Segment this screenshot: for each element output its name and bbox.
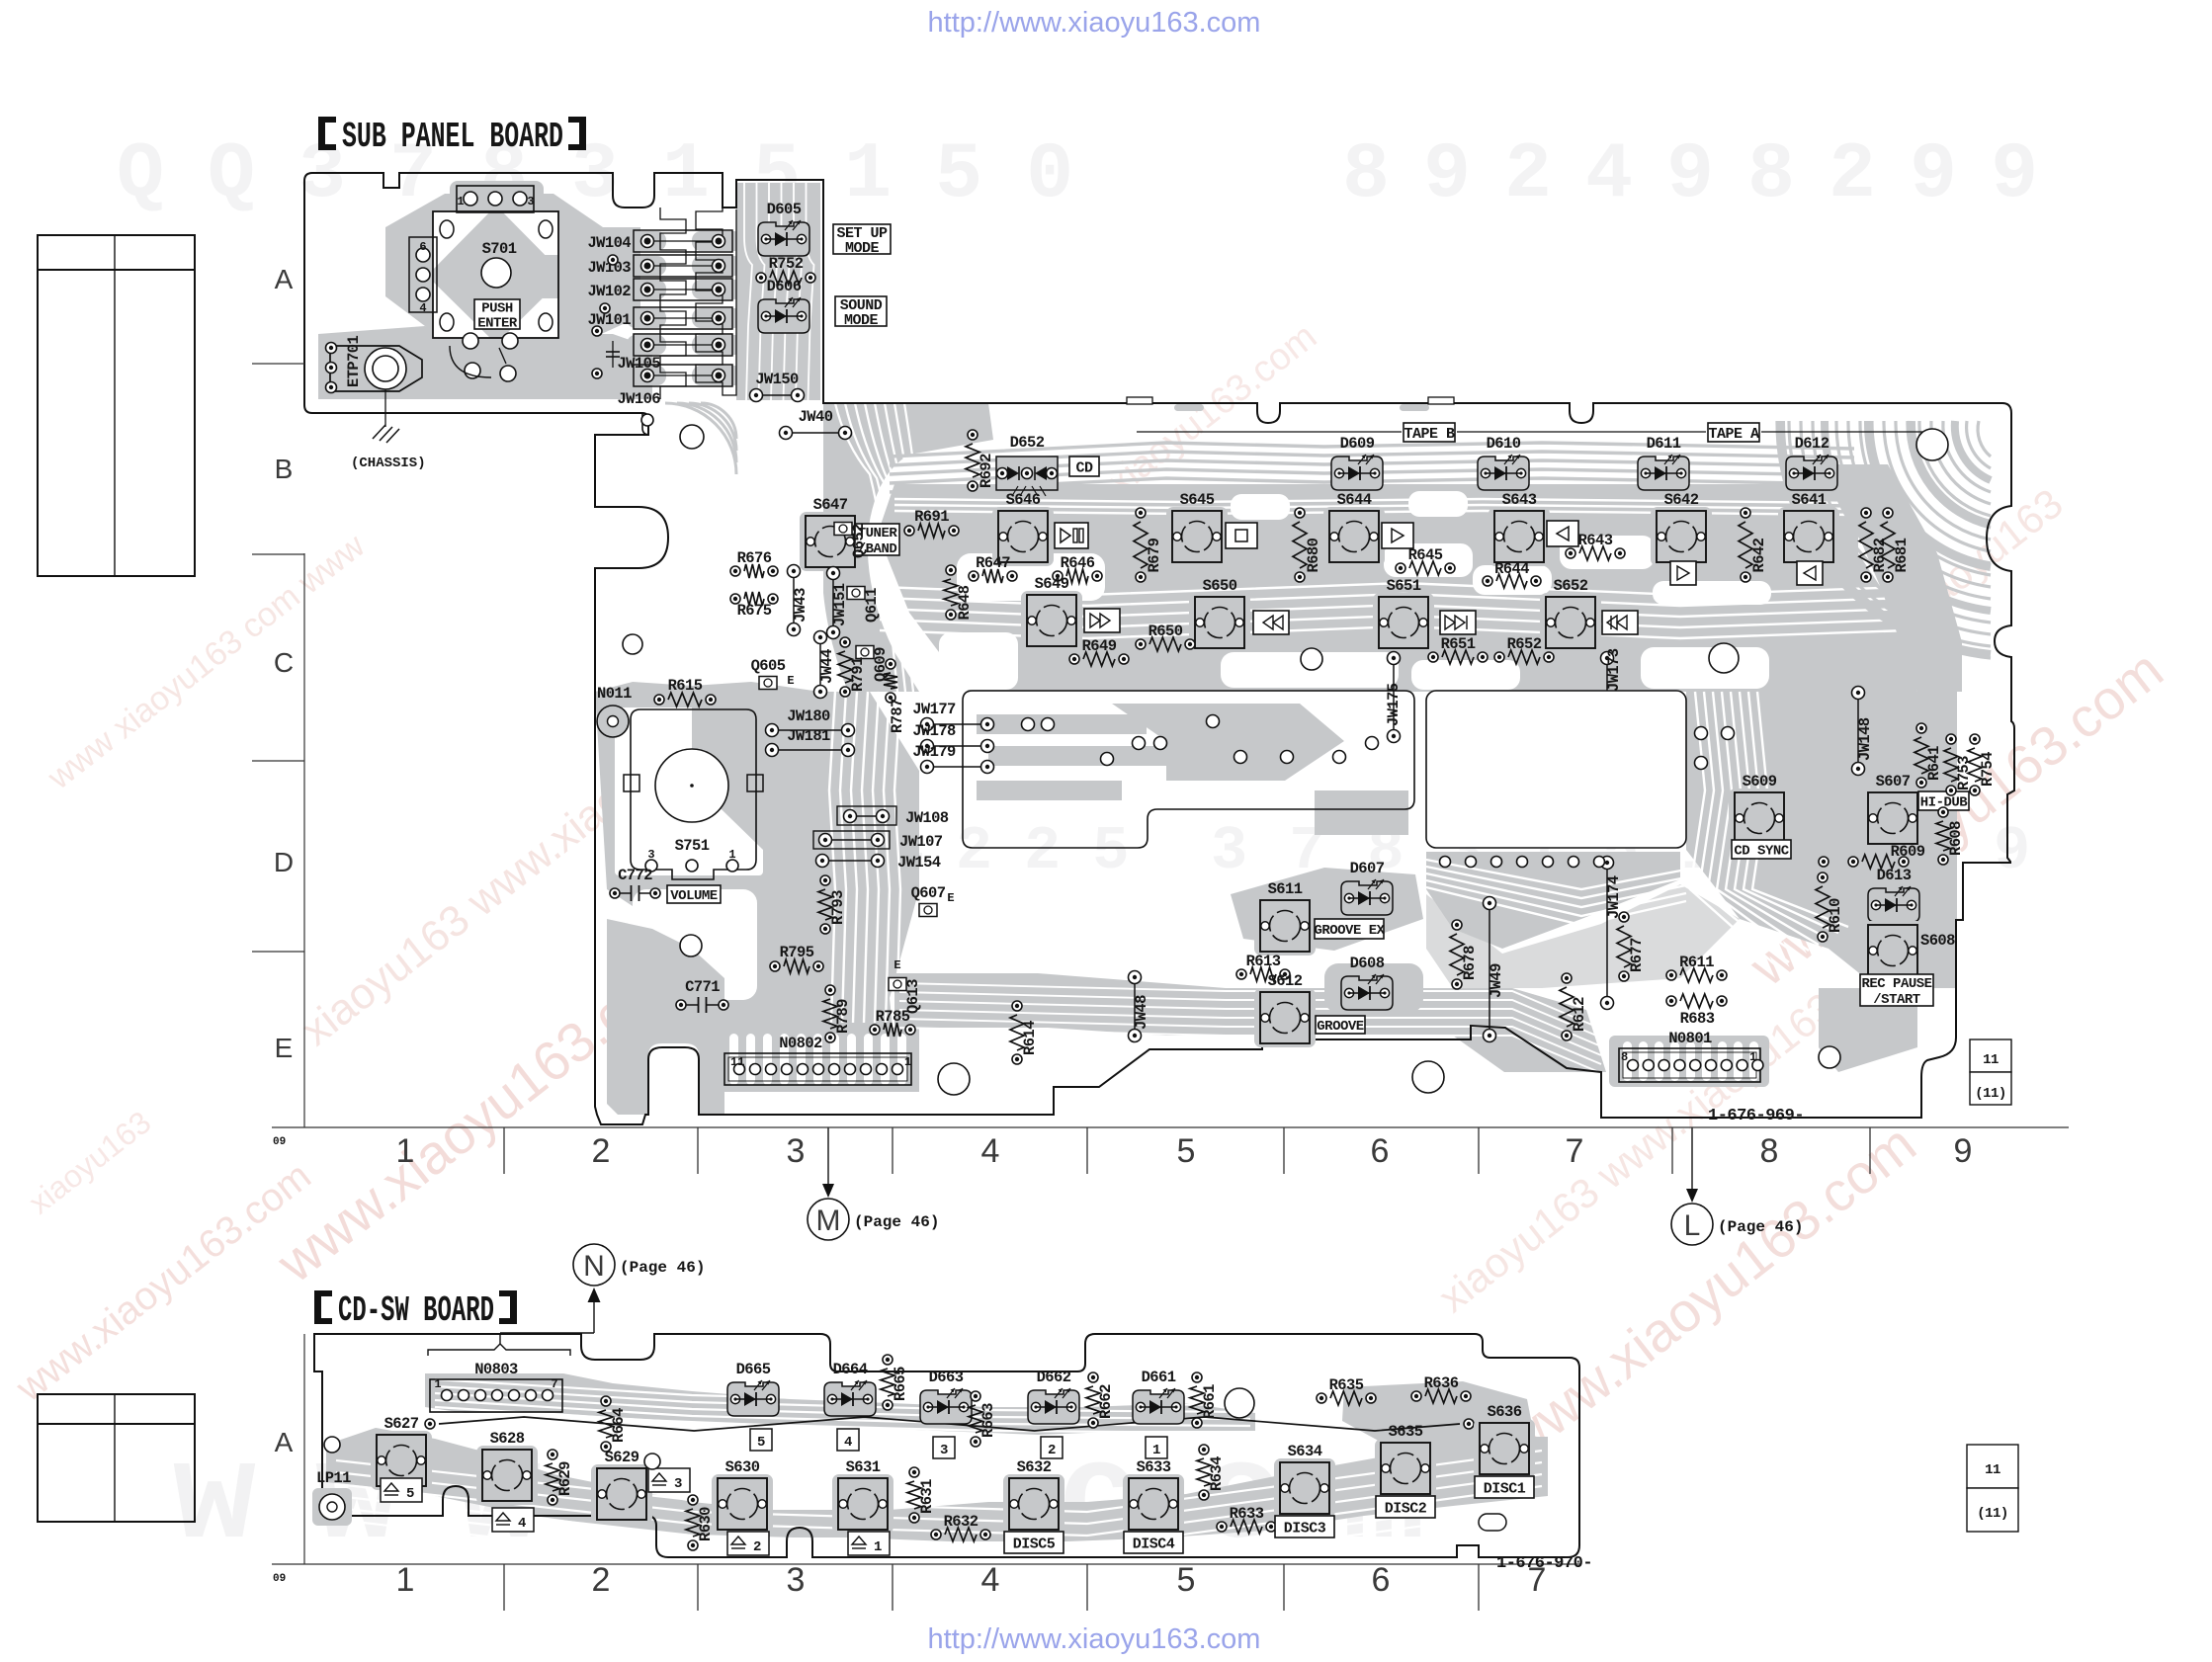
lamp LP11: [312, 1469, 352, 1526]
switch S632: [1003, 1458, 1064, 1534]
ETP701 test point: [326, 335, 423, 392]
LED D609: [1331, 435, 1383, 490]
svg-text:GROOVE: GROOVE: [1317, 1019, 1364, 1035]
svg-text:D605: D605: [767, 201, 802, 218]
svg-text:D611: D611: [1647, 435, 1681, 453]
svg-text:R613: R613: [1246, 953, 1281, 970]
resistor R632: [931, 1513, 990, 1541]
svg-text:R676: R676: [737, 549, 772, 567]
resistor R643: [1566, 532, 1625, 560]
white keepout rect B: [1426, 691, 1686, 848]
svg-text:1: 1: [1749, 1050, 1756, 1064]
svg-text:http://www.xiaoyu163.com: http://www.xiaoyu163.com: [928, 1623, 1261, 1655]
hole below S751: [680, 935, 702, 956]
svg-text:S635: S635: [1389, 1423, 1423, 1441]
copper: S611/S612 cluster: [1231, 868, 1423, 951]
svg-text:11: 11: [1983, 1052, 1999, 1068]
svg-text:2: 2: [592, 1561, 611, 1599]
switch S633: [1123, 1458, 1184, 1534]
resistor R641: [1914, 723, 1943, 788]
svg-text:2: 2: [1048, 1443, 1056, 1458]
resistor R754: [1968, 734, 1997, 795]
copper: right mid region below rect B: [1426, 852, 1680, 949]
switch S608: [1862, 921, 1923, 980]
label SET UP MODE: [833, 224, 891, 254]
svg-text:DISC2: DISC2: [1385, 1500, 1427, 1517]
svg-text:D: D: [274, 847, 294, 877]
resistor R610: [1816, 873, 1844, 942]
svg-text:6: 6: [1372, 1561, 1391, 1599]
switch S641: [1778, 491, 1839, 566]
switch S643: [1489, 491, 1550, 566]
oval hole cd-sw right: [1479, 1514, 1506, 1531]
resistor R663: [969, 1391, 997, 1447]
resistor R652: [1494, 635, 1554, 664]
page index cd-sw board: [1967, 1445, 2018, 1488]
svg-text:JW154: JW154: [897, 854, 941, 872]
svg-text:R641: R641: [1925, 746, 1943, 781]
label TUNER/BAND: [855, 524, 899, 555]
resistor R636: [1411, 1374, 1471, 1403]
hole bottom mid: [938, 1063, 970, 1095]
label DISC3: [1275, 1516, 1334, 1537]
svg-text:3: 3: [527, 195, 534, 208]
resistor R629: [546, 1450, 574, 1505]
svg-text:DISC5: DISC5: [1013, 1536, 1056, 1552]
svg-text:R609: R609: [1891, 843, 1925, 861]
svg-text:JW178: JW178: [912, 722, 956, 740]
copper: middle horizontal groove band: [894, 973, 1606, 1072]
svg-text:S608: S608: [1920, 932, 1955, 950]
svg-text:4: 4: [419, 301, 426, 315]
title SUB PANEL BOARD: [318, 117, 586, 157]
resistor R630: [686, 1495, 715, 1550]
svg-text:D608: D608: [1350, 955, 1385, 972]
wire jumper JW44: [814, 631, 837, 699]
svg-text:S631: S631: [846, 1458, 881, 1476]
switch S629: [591, 1449, 652, 1524]
svg-text:R644: R644: [1494, 560, 1529, 578]
svg-text:R643: R643: [1578, 532, 1613, 549]
flow arrow L: [1671, 1127, 1803, 1245]
resistor R614: [1010, 1001, 1039, 1064]
svg-text:JW173: JW173: [1605, 648, 1623, 692]
svg-text:A: A: [275, 264, 294, 294]
svg-text:JW104: JW104: [587, 234, 631, 252]
switch S652: [1540, 577, 1601, 652]
svg-text:R795: R795: [780, 944, 814, 961]
transistor Q613: [889, 978, 922, 1015]
svg-text:S611: S611: [1268, 880, 1303, 898]
symbol play fwd below S642: [1670, 561, 1696, 585]
wire jumper JW148: [1852, 687, 1875, 776]
copper: cd-sw upper traces from N0803: [425, 1373, 1255, 1435]
svg-text:JW108: JW108: [905, 809, 949, 827]
switch S607: [1862, 773, 1923, 848]
capacitor C772: [610, 867, 660, 901]
transistor Q605: [751, 657, 795, 690]
resistor R787: [884, 659, 906, 733]
switch S627: [371, 1415, 432, 1490]
svg-text:D610: D610: [1487, 435, 1521, 453]
switch S634: [1274, 1443, 1335, 1518]
revision tables left: [38, 235, 195, 576]
svg-text:E: E: [787, 674, 794, 688]
resistor R692: [966, 430, 995, 491]
svg-text:N0803: N0803: [474, 1361, 518, 1378]
svg-text:R663: R663: [979, 1403, 997, 1438]
svg-text:JW44: JW44: [818, 649, 836, 684]
sub panel bottom edge continuation: [642, 413, 649, 435]
svg-text:1: 1: [457, 195, 464, 208]
svg-text:R648: R648: [956, 585, 974, 620]
svg-text:CD-SW BOARD: CD-SW BOARD: [338, 1290, 494, 1331]
svg-text:3: 3: [674, 1476, 682, 1492]
resistor R752: [756, 255, 815, 285]
svg-text:R633: R633: [1230, 1505, 1264, 1523]
svg-text:S634: S634: [1288, 1443, 1322, 1460]
svg-text:E: E: [275, 1033, 294, 1063]
svg-text:CD SYNC: CD SYNC: [1734, 844, 1789, 860]
svg-text:R634: R634: [1208, 1456, 1226, 1491]
svg-text:R680: R680: [1305, 538, 1322, 572]
grid ruler cd-sw board: [272, 1563, 1581, 1565]
svg-text:1: 1: [396, 1132, 415, 1170]
svg-text:3: 3: [647, 848, 654, 862]
svg-text:R791: R791: [849, 657, 867, 692]
svg-text:R645: R645: [1408, 546, 1443, 564]
resistor R609: [1848, 843, 1925, 869]
switch S628: [476, 1430, 538, 1505]
svg-text:A: A: [275, 1427, 294, 1457]
svg-text:1: 1: [728, 848, 735, 862]
switch S649: [1021, 575, 1082, 650]
svg-text:R681: R681: [1893, 538, 1911, 572]
svg-text:5: 5: [1177, 1132, 1196, 1170]
svg-text:C772: C772: [618, 867, 652, 884]
resistor R644: [1483, 560, 1541, 588]
svg-text:S646: S646: [1006, 491, 1041, 509]
wire jumper JW150: [750, 371, 805, 402]
svg-text:TAPE B: TAPE B: [1404, 426, 1455, 443]
svg-text:JW180: JW180: [787, 707, 830, 725]
switch S701 body: [433, 211, 558, 338]
copper: thin traces above switch rows: [890, 443, 1854, 492]
switch S646: [992, 491, 1054, 566]
svg-text:R614: R614: [1021, 1021, 1039, 1055]
transistor Q652: [834, 523, 868, 559]
label VOLUME: [667, 885, 721, 903]
svg-text:http://www.xiaoyu163.com: http://www.xiaoyu163.com: [928, 7, 1261, 39]
hole cd-sw right: [1225, 1388, 1254, 1418]
copper: left mid column (under bridge, around S751): [595, 682, 919, 1047]
svg-text:ETP701: ETP701: [345, 335, 363, 387]
label REC PAUSE/START: [1860, 974, 1933, 1006]
svg-text:R610: R610: [1827, 898, 1844, 933]
transistor Q611: [847, 587, 881, 623]
svg-text:R642: R642: [1750, 538, 1768, 572]
svg-text:Q607: Q607: [911, 884, 946, 902]
symbol play: [1382, 523, 1413, 548]
resistor R661: [1190, 1372, 1219, 1428]
svg-text:S652: S652: [1554, 577, 1588, 595]
resistor R785: [870, 1008, 915, 1037]
resistor R675: [730, 592, 778, 620]
connector N0802: [724, 1035, 911, 1085]
resistor R635: [1317, 1376, 1376, 1405]
svg-text:JW179: JW179: [912, 743, 956, 761]
svg-text:R677: R677: [1628, 938, 1646, 972]
svg-text:7: 7: [1566, 1132, 1584, 1170]
svg-text:Q605: Q605: [751, 657, 786, 675]
label DISC5: [1004, 1532, 1063, 1553]
page index main board: [1970, 1039, 2011, 1072]
svg-text:JW177: JW177: [912, 701, 956, 718]
svg-text:JW49: JW49: [1488, 963, 1505, 998]
svg-text:3: 3: [787, 1561, 806, 1599]
resistor R611: [1666, 954, 1727, 982]
switch S612: [1254, 972, 1316, 1047]
svg-text:CD: CD: [1075, 459, 1093, 476]
resistor R680: [1293, 508, 1322, 582]
svg-text:TAPE A: TAPE A: [1708, 426, 1759, 443]
svg-text:Q613: Q613: [904, 979, 922, 1014]
svg-text:S650: S650: [1203, 577, 1237, 595]
svg-text:GROOVE EX: GROOVE EX: [1314, 923, 1385, 939]
svg-text:R679: R679: [1146, 538, 1163, 572]
jumper pad row JW103: [634, 255, 732, 277]
svg-text:S641: S641: [1792, 491, 1827, 509]
pads row below rect B: [1440, 857, 1451, 868]
svg-text:R692: R692: [978, 454, 995, 488]
svg-text:Q611: Q611: [863, 588, 881, 623]
board edge tabs on top edge: [1127, 397, 1152, 404]
LED D606: [758, 278, 809, 333]
LED D663: [920, 1369, 972, 1424]
svg-text:/START: /START: [1873, 992, 1920, 1008]
svg-text:E: E: [947, 891, 954, 905]
svg-text:C771: C771: [685, 978, 720, 996]
switch S636: [1474, 1403, 1535, 1478]
svg-text:LP11: LP11: [316, 1469, 351, 1487]
resistor R664: [599, 1396, 628, 1452]
svg-text:JW150: JW150: [755, 371, 799, 388]
resistor R645: [1396, 546, 1455, 575]
tape select line: [1137, 431, 1402, 433]
svg-text:JW151: JW151: [831, 583, 849, 626]
copper: gray slots on top edge: [1174, 404, 1204, 411]
svg-text:R665: R665: [892, 1367, 909, 1401]
wire jumper JW178: [912, 722, 993, 753]
wire jumper JW180: [766, 707, 855, 737]
wire jumper JW173: [1601, 648, 1624, 814]
svg-text:09: 09: [273, 1573, 286, 1585]
resistor R795: [770, 944, 823, 973]
svg-text:D664: D664: [833, 1361, 868, 1378]
svg-text:09: 09: [273, 1136, 286, 1148]
svg-text:D652: D652: [1010, 434, 1045, 452]
svg-text:PUSH: PUSH: [481, 301, 513, 317]
svg-text:JW105: JW105: [617, 355, 660, 373]
svg-text:S636: S636: [1488, 1403, 1522, 1421]
switch S631: [832, 1458, 893, 1534]
svg-text:1: 1: [1152, 1443, 1160, 1458]
svg-text:892498299: 892498299: [1342, 130, 2072, 220]
jumper pad row JW102: [634, 279, 732, 300]
LED D662: [1028, 1369, 1079, 1424]
svg-text:R662: R662: [1097, 1384, 1115, 1419]
switch S647: [800, 496, 861, 571]
switch S645: [1166, 491, 1228, 566]
resistor R648: [944, 565, 974, 621]
svg-text:1-676-970-: 1-676-970-: [1496, 1554, 1592, 1573]
svg-text:ENTER: ENTER: [477, 316, 518, 332]
svg-text:D663: D663: [929, 1369, 964, 1386]
symbol prev: [1602, 611, 1638, 634]
symbol play/pause: [1055, 523, 1088, 548]
svg-text:JW175: JW175: [1385, 683, 1403, 726]
label TAPE A: [1708, 423, 1759, 442]
copper: N0802 connector blob: [718, 1028, 919, 1092]
svg-text:1: 1: [904, 1055, 911, 1069]
svg-text:JW48: JW48: [1133, 995, 1150, 1030]
resistor R793: [818, 875, 847, 934]
svg-text:R652: R652: [1507, 635, 1542, 653]
svg-text:L: L: [1684, 1209, 1701, 1242]
switch S609: [1729, 773, 1790, 848]
svg-text:Q609: Q609: [872, 647, 890, 682]
svg-text:S701: S701: [482, 240, 517, 258]
svg-text:D665: D665: [736, 1361, 771, 1378]
hole top right: [1916, 429, 1948, 460]
svg-text:11: 11: [1985, 1462, 2000, 1478]
svg-text:6: 6: [419, 240, 426, 254]
resistor R642: [1739, 508, 1768, 582]
board edge zipper fingers: [696, 208, 736, 395]
resistor R683: [1666, 994, 1727, 1028]
svg-text:2: 2: [592, 1132, 611, 1170]
resistor R681: [1881, 508, 1911, 582]
svg-text:D662: D662: [1037, 1369, 1071, 1386]
grid ruler main board: [272, 1126, 2069, 1128]
capacitor C771: [676, 978, 728, 1013]
copper: top-right fan arcs: [1777, 421, 1991, 658]
svg-text:S609: S609: [1743, 773, 1777, 790]
svg-text:JW102: JW102: [587, 283, 631, 300]
svg-text:R664: R664: [610, 1408, 628, 1443]
svg-text:(Page 46): (Page 46): [854, 1213, 939, 1231]
resistor R649: [1069, 637, 1129, 666]
resistor R662: [1086, 1372, 1115, 1428]
transistor Q609: [856, 646, 890, 683]
svg-text:R611: R611: [1679, 954, 1714, 971]
label TAPE B: [1404, 423, 1455, 442]
svg-text:D607: D607: [1350, 860, 1385, 877]
svg-text:S645: S645: [1180, 491, 1215, 509]
svg-text:4: 4: [844, 1435, 852, 1451]
svg-text:DISC3: DISC3: [1284, 1520, 1326, 1537]
svg-text:VOLUME: VOLUME: [670, 888, 718, 904]
LED D612: [1786, 435, 1837, 490]
board outline: SUB PANEL BOARD + main board: [304, 173, 2014, 1124]
resistor R682: [1859, 508, 1889, 582]
LED D608: [1341, 955, 1393, 1010]
svg-text:S628: S628: [490, 1430, 525, 1448]
resistor R612: [1560, 973, 1588, 1040]
svg-text:R647: R647: [976, 554, 1010, 572]
jumper JW108: [837, 806, 896, 825]
svg-text:D661: D661: [1142, 1369, 1176, 1386]
svg-text:R683: R683: [1680, 1010, 1715, 1028]
resistor R691: [904, 508, 959, 538]
svg-text:S643: S643: [1502, 491, 1537, 509]
switch S751 volume encoder: [624, 709, 763, 879]
jumper pad row JW101: [634, 307, 732, 329]
label DISC4: [1124, 1532, 1183, 1553]
LED D605: [758, 201, 809, 256]
wire jumper JW179: [912, 743, 993, 774]
label SOUND MODE: [835, 296, 887, 326]
svg-text:R646: R646: [1061, 554, 1095, 572]
svg-text:11: 11: [730, 1055, 744, 1069]
switch S611: [1254, 880, 1316, 956]
resistor R677: [1617, 912, 1646, 981]
resistor R753: [1944, 734, 1973, 795]
switch S701: [409, 186, 558, 381]
switch S644: [1323, 491, 1385, 566]
svg-text:R787: R787: [889, 699, 906, 733]
svg-text:R789: R789: [834, 999, 852, 1034]
svg-text:C: C: [274, 647, 294, 678]
resistor R647: [969, 554, 1017, 583]
resistor R676: [730, 549, 778, 578]
switch S650: [1189, 577, 1250, 652]
svg-text:S649: S649: [1035, 575, 1069, 593]
svg-text:N: N: [583, 1250, 605, 1283]
svg-text:3: 3: [787, 1132, 806, 1170]
svg-text:MODE: MODE: [844, 312, 879, 329]
wire jumper JW40: [780, 408, 852, 440]
svg-text:(Page 46): (Page 46): [1718, 1218, 1803, 1236]
svg-text:S651: S651: [1387, 577, 1421, 595]
flow arrow M: [808, 1127, 939, 1240]
svg-text:R615: R615: [668, 677, 703, 695]
svg-text:4: 4: [518, 1516, 526, 1532]
node N011: [597, 706, 629, 737]
wire jumper JW48: [1129, 971, 1151, 1042]
svg-text:3: 3: [940, 1443, 948, 1458]
copper: cd-sw central band: [326, 1428, 1548, 1541]
svg-text:R661: R661: [1201, 1384, 1219, 1419]
svg-text:4: 4: [981, 1132, 1000, 1170]
jumper pad row JW105: [634, 365, 732, 386]
svg-text:S647: S647: [813, 496, 848, 514]
svg-text:DISC4: DISC4: [1133, 1536, 1175, 1552]
label CD: [1069, 457, 1099, 476]
svg-text:1: 1: [434, 1377, 441, 1391]
svg-text:R793: R793: [829, 890, 847, 925]
svg-text:N0801: N0801: [1668, 1030, 1712, 1047]
wire jumper JW177: [912, 701, 993, 731]
symbol stop: [1226, 523, 1257, 548]
svg-text:MODE: MODE: [845, 240, 880, 257]
svg-text:DISC1: DISC1: [1484, 1480, 1526, 1497]
svg-text:1-676-969-: 1-676-969-: [1708, 1107, 1804, 1125]
svg-text:JW40: JW40: [799, 408, 833, 426]
wire jumper JW108: [844, 810, 890, 823]
svg-text:7: 7: [551, 1377, 557, 1391]
svg-text:S630: S630: [725, 1458, 760, 1476]
